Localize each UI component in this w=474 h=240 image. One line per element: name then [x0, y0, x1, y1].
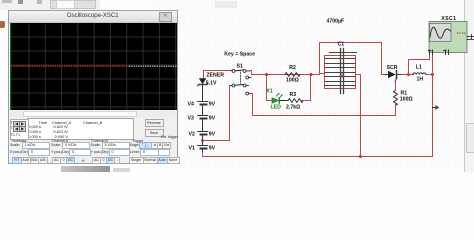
Channel B — [91, 139, 108, 143]
svg-text:R1: R1 — [401, 90, 408, 96]
Trigger — [132, 139, 143, 143]
svg-text:Key = Space: Key = Space — [224, 51, 255, 57]
title bar — [9, 11, 177, 23]
battery V3 9V — [198, 116, 208, 132]
wire: C1 left stub — [320, 73, 325, 75]
zener diode ZENER 5.1V — [197, 78, 207, 101]
wire: LED branch down from junction — [267, 75, 272, 101]
wire: SCR gate to R1 — [395, 81, 397, 91]
svg-text:LED: LED — [271, 105, 282, 111]
svg-text:XSC1: XSC1 — [441, 16, 456, 22]
wire: SCR cathode to node — [402, 74, 409, 76]
readout panel — [27, 118, 134, 140]
junction SCR cathode node — [407, 73, 410, 76]
probe arrow on output wire — [433, 105, 440, 110]
resistor R2 100 Ohm — [285, 73, 300, 77]
svg-text:9V: 9V — [209, 145, 216, 151]
svg-text:X1: X1 — [266, 89, 272, 95]
T1 T2 labels + arrow buttons — [10, 119, 29, 140]
workspace canvas with faint dot grid — [150, 0, 464, 172]
green left edge — [10, 23, 12, 110]
battery V4 9V — [198, 102, 208, 116]
junction bottom rail / C1 branch — [359, 155, 362, 158]
svg-text:9V: 9V — [209, 131, 216, 137]
junction R2 output — [310, 73, 313, 76]
svg-text:R3: R3 — [290, 92, 297, 98]
svg-text:C1: C1 — [338, 41, 345, 47]
Timebase — [11, 139, 27, 143]
battery V2 9V — [198, 132, 208, 146]
svg-text:9V: 9V — [209, 115, 216, 121]
svg-text:V4: V4 — [188, 101, 194, 107]
wire: output node down to bottom rail — [432, 55, 434, 157]
svg-text:ZENER: ZENER — [206, 73, 224, 79]
resistor R1 100 Ohm vertical — [394, 91, 398, 106]
grid vertical lines — [29, 23, 176, 110]
svg-text:V1: V1 — [189, 145, 195, 151]
resistor R3 2.7k Ohm — [288, 99, 303, 103]
capacitor bank C1 — [325, 49, 357, 94]
scrollbar strip under display — [10, 111, 177, 117]
junction LED tap — [265, 73, 268, 76]
right scrollbar column — [464, 0, 474, 172]
junction output node — [431, 73, 434, 76]
channel B trace white dotted — [129, 65, 177, 67]
svg-text:1H: 1H — [417, 76, 424, 82]
wire: node up to XSC1 channel A pin — [409, 54, 430, 75]
Channel A — [52, 139, 69, 143]
wire: L1 to output node — [426, 74, 433, 76]
wire: battery tap to switch pole 2 — [203, 86, 231, 141]
svg-text:R2: R2 — [289, 65, 296, 71]
svg-text:L1: L1 — [416, 65, 422, 71]
switch S1 unit 2 — [230, 84, 251, 95]
SCR thyristor — [385, 71, 402, 82]
svg-text:SCR: SCR — [387, 65, 398, 71]
svg-text:9V: 9V — [209, 101, 216, 107]
wire: bottom rail — [203, 153, 433, 157]
grid horizontal lines — [10, 37, 177, 107]
LED X1 — [272, 93, 283, 103]
left-edge icon fragment — [0, 21, 5, 28]
svg-text:100Ω: 100Ω — [400, 97, 413, 103]
svg-text:V2: V2 — [189, 131, 195, 137]
inductor L1 1H — [409, 74, 414, 76]
svg-text:Ext Trig: Ext Trig — [457, 31, 467, 35]
wire: zener top to switch pole 1 — [204, 71, 231, 79]
top-left toolbar fragments of main window — [0, 0, 100, 10]
wire: switch throw to R2 branch — [250, 71, 320, 75]
lead: LED to R3 — [280, 100, 288, 102]
junction battery tap — [201, 139, 204, 142]
svg-text:100Ω: 100Ω — [286, 78, 299, 84]
bottom control groups — [9, 138, 177, 164]
svg-text:2.7kΩ: 2.7kΩ — [286, 104, 300, 110]
instrument XSC1 icon — [429, 22, 474, 55]
svg-text:S1: S1 — [237, 63, 243, 69]
wire: riser and top rail to SCR — [320, 43, 386, 75]
scope display — [10, 23, 177, 110]
svg-text:5.1V: 5.1V — [206, 81, 217, 87]
wire: C1 right branch to bottom rail — [356, 75, 361, 157]
switch S1 unit 1 — [230, 70, 251, 79]
wire: R3 to R2 output junction — [301, 75, 311, 101]
bottom-left gray window fragments — [61, 166, 110, 172]
battery V1 9V — [198, 146, 208, 154]
svg-text:V3: V3 — [188, 115, 194, 121]
svg-text:4700µF: 4700µF — [327, 19, 345, 25]
Reverse / Save buttons — [145, 119, 164, 127]
channel A trace red dotted — [11, 65, 129, 67]
switch gang dashed link — [240, 72, 242, 85]
wire: R1 down and gate drive line to switch — [251, 94, 396, 116]
